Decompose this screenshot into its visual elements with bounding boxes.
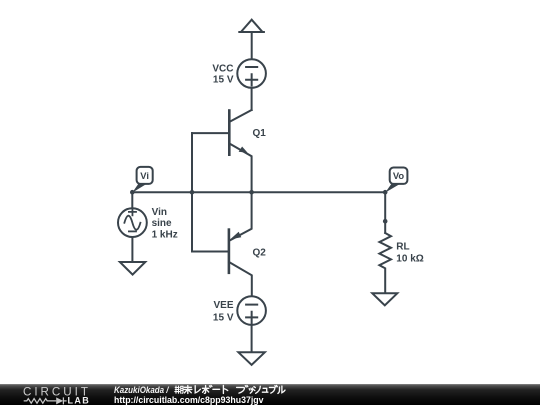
svg-text:RL: RL xyxy=(396,242,409,253)
svg-text:15 V: 15 V xyxy=(213,313,234,324)
svg-text:15 V: 15 V xyxy=(213,75,234,86)
svg-text:sine: sine xyxy=(152,218,172,229)
svg-text:Vi: Vi xyxy=(140,170,149,181)
svg-text:Vo: Vo xyxy=(393,170,405,181)
svg-text:KazukiOkada /: KazukiOkada / xyxy=(114,384,170,395)
svg-text:1 kHz: 1 kHz xyxy=(152,229,178,240)
svg-text:VEE: VEE xyxy=(213,300,233,311)
svg-text:http://circuitlab.com/c8pp93hu: http://circuitlab.com/c8pp93hu37jgv xyxy=(114,395,264,405)
svg-text:VCC: VCC xyxy=(212,64,233,75)
svg-text:10 kΩ: 10 kΩ xyxy=(396,253,423,264)
svg-text:Vin: Vin xyxy=(152,207,167,218)
svg-text:Q2: Q2 xyxy=(253,247,267,258)
svg-text:LAB: LAB xyxy=(68,395,92,405)
svg-text:Q1: Q1 xyxy=(253,128,267,139)
